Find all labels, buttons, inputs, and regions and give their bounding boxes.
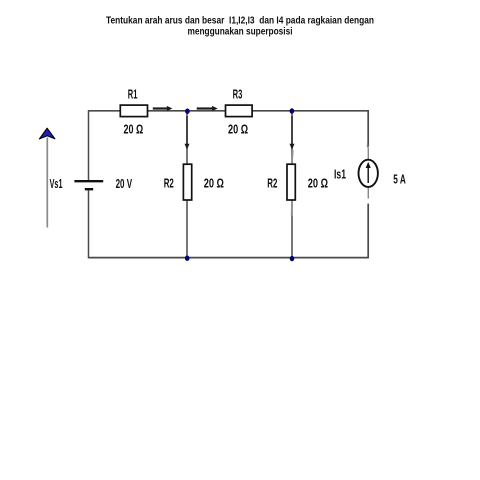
wire branch B lead upper light [291, 150, 294, 164]
wire left upper [88, 110, 90, 180]
svg-text:20 Ω: 20 Ω [204, 175, 224, 190]
node dot A bottom [185, 256, 189, 261]
current arrow I3 down branch A [185, 116, 190, 150]
wire left lower [88, 190, 90, 258]
svg-text:R3: R3 [233, 86, 243, 101]
svg-text:5 A: 5 A [393, 171, 406, 186]
svg-text:20 Ω: 20 Ω [124, 121, 144, 136]
wire branch node A [186, 111, 188, 259]
source voltage direction arrow head [39, 128, 55, 139]
wire right source lead top [367, 148, 369, 161]
current source Is1 circle [359, 160, 378, 187]
resistor R1 [120, 105, 147, 117]
svg-text:Is1: Is1 [334, 167, 346, 182]
wire top [89, 110, 369, 112]
wire right upper [367, 110, 369, 147]
node dot A top [185, 109, 189, 114]
wire right jog above source [367, 143, 369, 147]
node dot B top [290, 109, 294, 114]
resistor R3 [226, 105, 253, 117]
source voltage direction arrow shaft [46, 138, 48, 228]
wire right lower [367, 204, 369, 259]
wire branch node B [291, 111, 293, 259]
current arrow I1 [153, 106, 173, 111]
resistor R2 left [183, 164, 191, 200]
battery Vs1 plate short [85, 188, 93, 190]
current arrow I2 [197, 106, 218, 111]
node dot B bottom [290, 256, 294, 261]
svg-text:R2: R2 [164, 175, 174, 190]
resistor R2 right [287, 164, 295, 200]
svg-text:20 Ω: 20 Ω [228, 121, 248, 136]
svg-text:Vs1: Vs1 [50, 176, 63, 191]
wire branch B lead lower light [291, 201, 293, 216]
wire right source lead bottom [367, 187, 369, 199]
svg-text:20 V: 20 V [116, 176, 133, 191]
svg-text:20 Ω: 20 Ω [308, 176, 328, 191]
svg-text:menggunakan superposisi: menggunakan superposisi [188, 26, 293, 37]
current source Is1 arrow [366, 162, 371, 183]
svg-text:R1: R1 [128, 86, 138, 101]
svg-text:R2: R2 [267, 176, 277, 191]
current arrow I4 down branch B [290, 116, 295, 150]
wire bottom [89, 257, 369, 259]
battery Vs1 plate long [74, 180, 103, 182]
svg-text:Tentukan arah arus dan besar: Tentukan arah arus dan besar I1,I2,I3 da… [106, 16, 374, 27]
